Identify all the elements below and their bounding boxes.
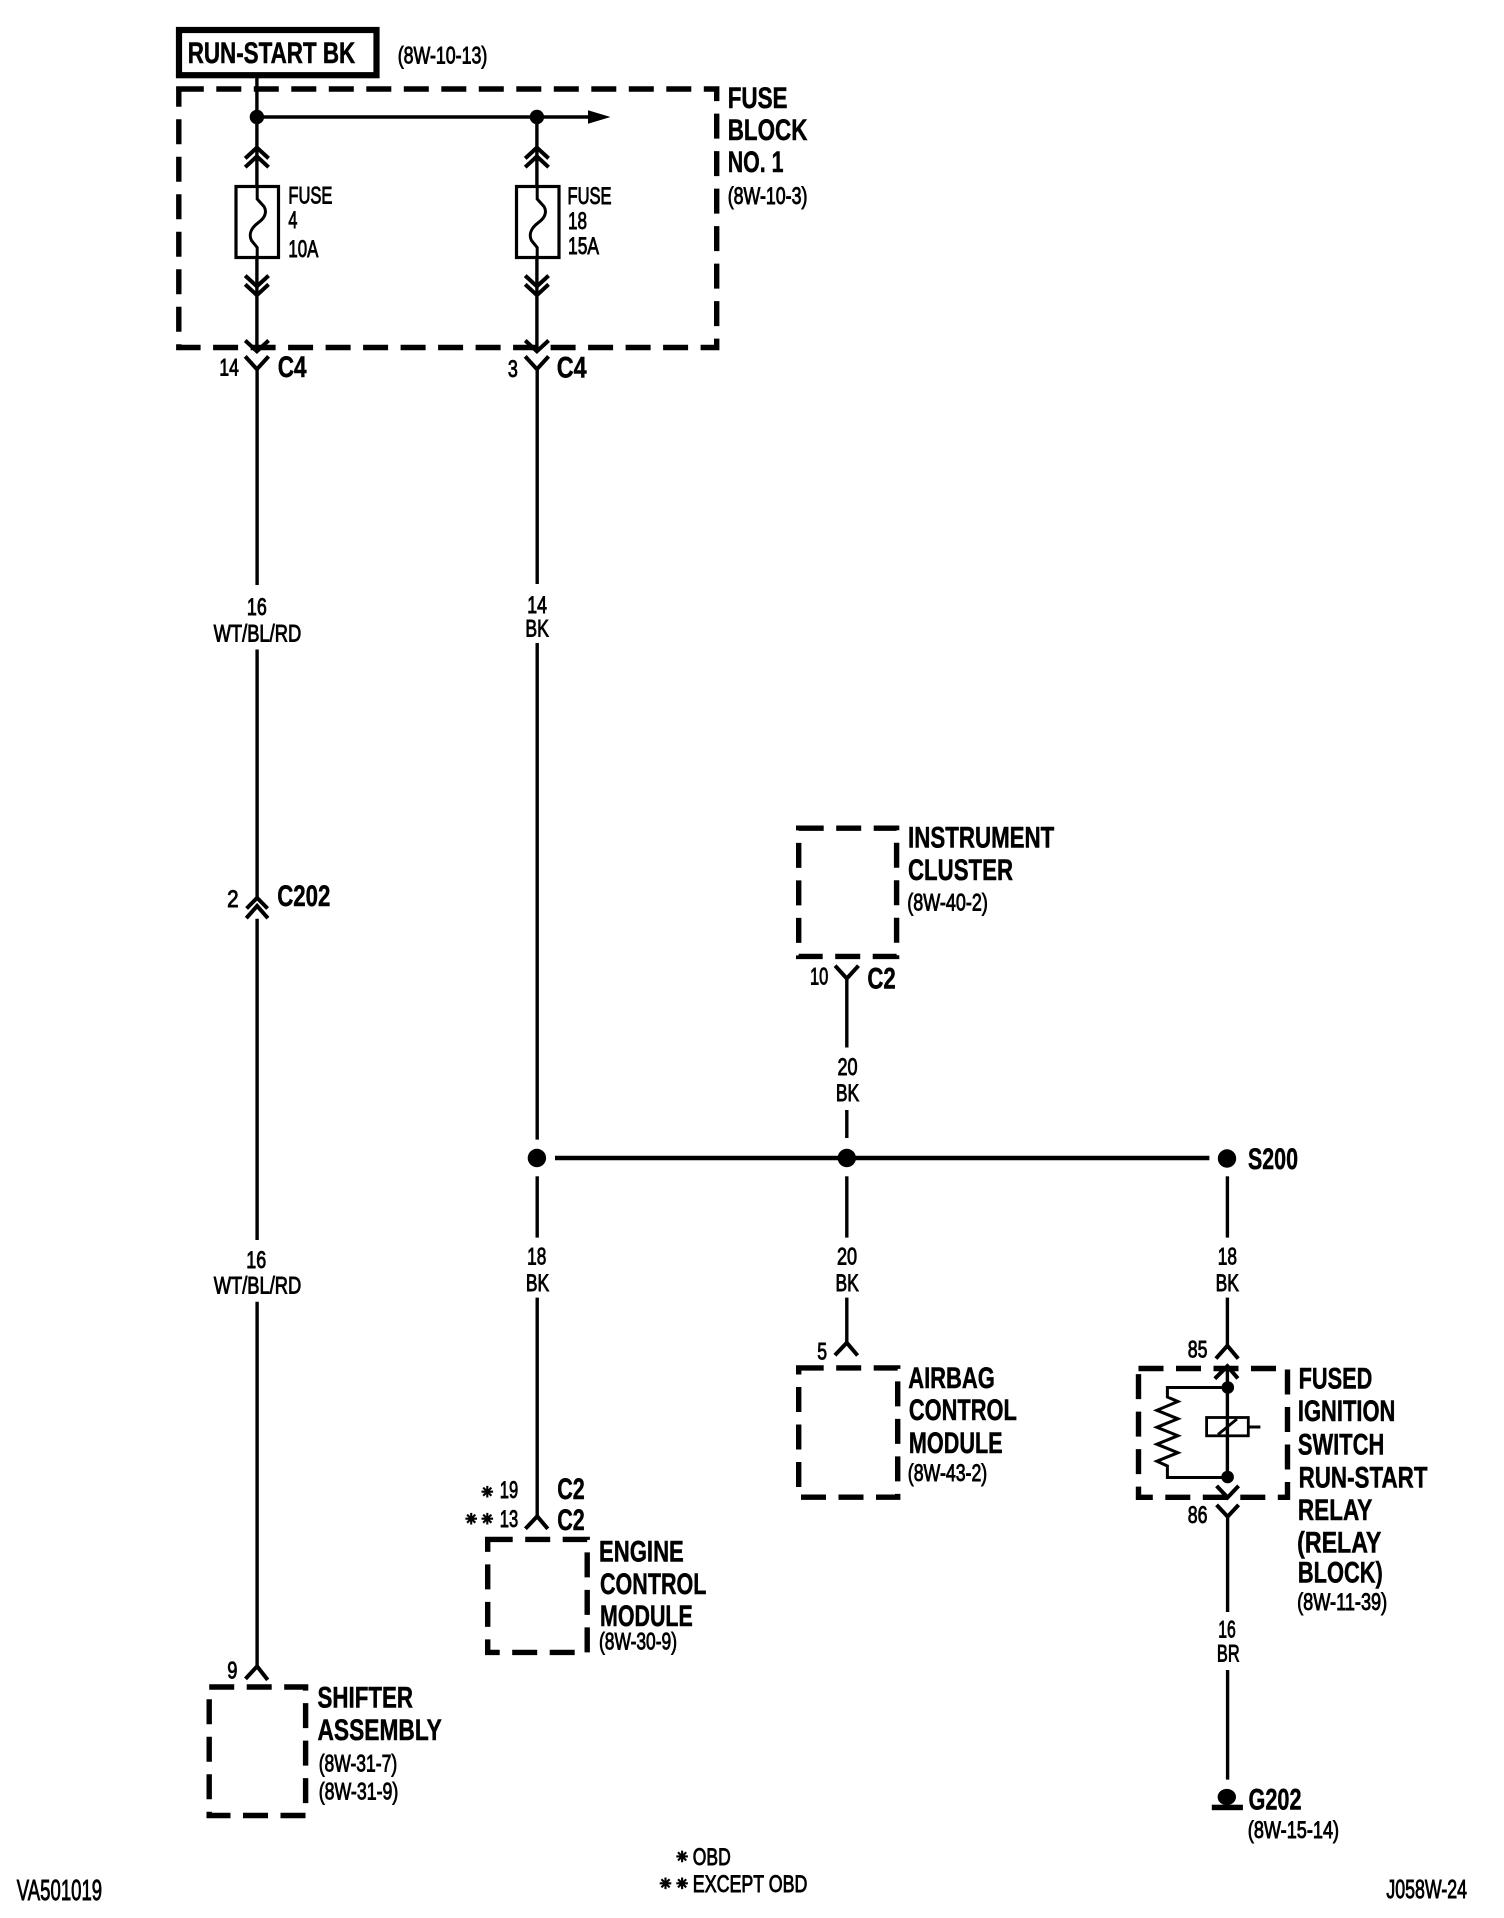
connector pin 85 at relay — [1216, 1346, 1238, 1359]
junction node at fuse 18 — [530, 110, 544, 124]
svg-text:18: 18 — [1218, 1244, 1237, 1271]
svg-text:9: 9 — [227, 1658, 237, 1685]
svg-text:18: 18 — [568, 208, 587, 235]
splice node (left) on S200 bus — [528, 1149, 546, 1167]
svg-text:RUN-START: RUN-START — [1299, 1461, 1428, 1494]
relay block dashed box — [1139, 1369, 1288, 1498]
connector chevrons below fuse 18 — [525, 276, 548, 296]
wire below S200 — [1226, 1176, 1229, 1237]
svg-text:18: 18 — [527, 1244, 546, 1271]
wire down to ground — [1226, 1670, 1229, 1780]
fuse 4 (10A) symbol — [236, 187, 279, 258]
svg-text:C2: C2 — [867, 963, 895, 996]
svg-text:(8W-11-39): (8W-11-39) — [1297, 1589, 1387, 1616]
wire C4 pin3 down (upper segment) — [536, 369, 539, 584]
svg-text:C4: C4 — [278, 351, 307, 384]
svg-text:FUSED: FUSED — [1299, 1362, 1373, 1395]
svg-text:FUSE: FUSE — [728, 82, 788, 115]
engine control module name text — [599, 1536, 706, 1656]
svg-text:RELAY: RELAY — [1298, 1494, 1372, 1527]
svg-text:C2: C2 — [557, 1504, 585, 1537]
svg-text:RUN-START BK: RUN-START BK — [188, 37, 356, 70]
svg-text:(8W-40-2): (8W-40-2) — [907, 890, 988, 917]
svg-text:ASSEMBLY: ASSEMBLY — [318, 1714, 442, 1747]
fuse 18 value label — [568, 183, 612, 260]
svg-text:4: 4 — [288, 207, 297, 234]
svg-text:3: 3 — [508, 356, 518, 383]
junction node at fuse 4 — [250, 110, 264, 124]
ground G202 symbol — [1212, 1789, 1243, 1810]
svg-text:VA501019: VA501019 — [17, 1875, 102, 1907]
wire label 16 WT/BL/RD (upper) — [214, 594, 302, 647]
svg-text:16: 16 — [246, 1247, 266, 1274]
svg-text:SWITCH: SWITCH — [1298, 1429, 1384, 1462]
svg-text:S200: S200 — [1248, 1143, 1298, 1176]
fuse 18 (15A) symbol — [517, 187, 560, 258]
connector pins 19/13 at ECM — [525, 1516, 547, 1529]
svg-text:BLOCK): BLOCK) — [1298, 1557, 1383, 1590]
wire down to splice bus — [536, 643, 539, 1140]
connector pin 5 at airbag module — [835, 1343, 858, 1356]
svg-text:C202: C202 — [277, 880, 330, 913]
svg-text:BR: BR — [1217, 1641, 1240, 1668]
svg-text:13: 13 — [500, 1506, 518, 1533]
airbag control module dashed box — [799, 1368, 898, 1497]
svg-text:AIRBAG: AIRBAG — [908, 1362, 995, 1395]
svg-text:10A: 10A — [288, 236, 318, 263]
splice S200 end node — [1218, 1149, 1236, 1167]
wire from cluster down — [845, 979, 848, 1048]
wire C4 pin14 down (upper segment) — [255, 369, 258, 585]
svg-text:BK: BK — [836, 1080, 859, 1107]
wire below left splice — [536, 1176, 539, 1237]
wire from pin 86 down — [1226, 1517, 1229, 1612]
wire feed from RUN-START box into fuse block — [255, 78, 258, 188]
svg-text:CONTROL: CONTROL — [600, 1568, 706, 1601]
connector chevrons below fuse 4 — [245, 276, 268, 296]
svg-text:(8W-15-14): (8W-15-14) — [1248, 1817, 1339, 1844]
instrument cluster dashed box — [799, 828, 897, 956]
svg-text:CONTROL: CONTROL — [909, 1394, 1017, 1427]
svg-text:(RELAY: (RELAY — [1297, 1526, 1381, 1559]
svg-text:C2: C2 — [557, 1473, 585, 1506]
wire label 16 BR — [1217, 1617, 1240, 1668]
wire from entry arrow to coil node — [1226, 1366, 1229, 1477]
wire below fuse 18 — [535, 257, 538, 349]
connector pin 9 at shifter assembly — [246, 1666, 268, 1680]
svg-text:SHIFTER: SHIFTER — [318, 1681, 414, 1714]
svg-text:EXCEPT OBD: EXCEPT OBD — [693, 1871, 808, 1898]
relay block name text — [1297, 1362, 1427, 1616]
svg-text:ENGINE: ENGINE — [599, 1536, 684, 1569]
svg-text:G202: G202 — [1249, 1784, 1302, 1817]
fuse 4 value label — [288, 182, 332, 263]
connector C4 pin 3 (arrow + Y) — [525, 341, 548, 370]
svg-text:FUSE: FUSE — [288, 182, 332, 209]
svg-text:(8W-31-9): (8W-31-9) — [319, 1778, 399, 1805]
legend stars EXCEPT OBD — [660, 1871, 808, 1898]
wire S200 splice bus — [555, 1156, 1209, 1161]
wire horizontal feed bus inside fuse block — [257, 115, 589, 118]
svg-text:(8W-30-9): (8W-30-9) — [599, 1629, 677, 1656]
svg-text:IGNITION: IGNITION — [1298, 1395, 1396, 1428]
junction node at relay coil bottom — [1221, 1471, 1234, 1484]
arrow continuation of feed bus — [588, 110, 611, 124]
connector pin 86 (Y) — [1217, 1505, 1239, 1517]
wire down to relay — [1226, 1298, 1229, 1346]
svg-text:OBD: OBD — [693, 1844, 731, 1871]
wire below C202 — [255, 919, 258, 1240]
svg-text:BK: BK — [1216, 1270, 1239, 1297]
connector C2 pin 10 (Y) — [835, 966, 858, 979]
svg-text:MODULE: MODULE — [909, 1427, 1003, 1460]
svg-text:BK: BK — [526, 1270, 549, 1297]
svg-text:85: 85 — [1188, 1337, 1208, 1364]
svg-text:WT/BL/RD: WT/BL/RD — [214, 1273, 302, 1300]
svg-text:20: 20 — [837, 1244, 857, 1271]
node RUN-START BK feed label box — [179, 30, 377, 75]
svg-text:BLOCK: BLOCK — [728, 114, 808, 147]
svg-text:2: 2 — [227, 886, 239, 913]
wire into middle splice — [845, 1110, 848, 1138]
shifter assembly dashed box — [209, 1687, 305, 1816]
svg-text:5: 5 — [817, 1339, 827, 1366]
connector chevrons above fuse 4 — [245, 148, 268, 168]
engine control module dashed box — [488, 1539, 588, 1652]
svg-text:15A: 15A — [568, 233, 599, 260]
connector C4 pin 14 (arrow + Y) — [245, 341, 268, 370]
svg-text:86: 86 — [1188, 1502, 1208, 1529]
svg-text:16: 16 — [1218, 1617, 1236, 1644]
wire label 16 WT/BL/RD (lower) — [214, 1247, 302, 1300]
svg-text:WT/BL/RD: WT/BL/RD — [214, 620, 302, 647]
svg-text:(8W-10-3): (8W-10-3) — [728, 183, 808, 210]
svg-text:14: 14 — [219, 354, 238, 381]
svg-text:(8W-31-7): (8W-31-7) — [319, 1751, 398, 1778]
svg-text:(8W-10-13): (8W-10-13) — [398, 43, 488, 70]
resistor (relay suppression) — [1157, 1388, 1228, 1478]
legend star OBD — [676, 1844, 730, 1871]
footnote stars for pin 13 — [465, 1513, 493, 1525]
wire continues to C202 — [255, 650, 258, 898]
relay coil element — [1207, 1418, 1261, 1436]
relay exit arrow at box edge — [1217, 1486, 1239, 1498]
svg-text:(8W-43-2): (8W-43-2) — [908, 1460, 987, 1487]
svg-text:NO. 1: NO. 1 — [728, 146, 784, 179]
wire below middle splice — [845, 1176, 848, 1237]
svg-text:BK: BK — [525, 616, 549, 643]
svg-text:J058W-24: J058W-24 — [1386, 1874, 1467, 1904]
wire down to airbag control module — [845, 1298, 848, 1343]
wire label 20 BK (below bus) — [836, 1244, 859, 1297]
svg-text:FUSE: FUSE — [568, 183, 612, 210]
connector chevrons above fuse 18 — [525, 148, 548, 168]
svg-text:10: 10 — [810, 964, 828, 991]
fuse block name text — [728, 82, 808, 210]
svg-text:C4: C4 — [557, 352, 587, 385]
svg-text:16: 16 — [247, 594, 267, 621]
airbag control module name text — [908, 1362, 1017, 1487]
wire label 18 BK (left) — [526, 1244, 549, 1297]
splice node (middle) on S200 bus — [838, 1149, 856, 1167]
wire down to ECM — [536, 1298, 539, 1517]
svg-text:CLUSTER: CLUSTER — [908, 854, 1013, 887]
relay entry arrow at box edge — [1215, 1366, 1238, 1379]
wire label 20 BK (above bus) — [836, 1054, 859, 1107]
connector C202 pin 2 (double chevron) — [246, 898, 268, 918]
instrument cluster name text — [907, 822, 1054, 917]
svg-text:20: 20 — [838, 1054, 858, 1081]
svg-text:INSTRUMENT: INSTRUMENT — [908, 822, 1054, 855]
shifter assembly name text — [318, 1681, 442, 1805]
wire from junction down to fuse 18 — [535, 117, 538, 188]
wire label 18 BK (right) — [1216, 1244, 1239, 1297]
junction node at relay coil top — [1222, 1381, 1235, 1394]
wire label 14 BK — [525, 592, 549, 643]
wire down to shifter assembly — [255, 1302, 258, 1667]
svg-text:BK: BK — [836, 1270, 859, 1297]
svg-text:19: 19 — [500, 1477, 518, 1504]
wire below fuse 4 — [255, 257, 258, 349]
fuse block no. 1 dashed box — [179, 89, 717, 348]
footnote star for pin 19 — [482, 1486, 494, 1498]
